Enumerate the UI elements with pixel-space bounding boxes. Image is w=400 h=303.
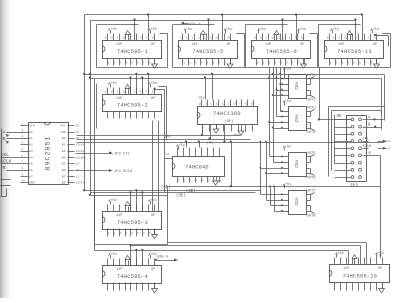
svg-text:+5v: +5v <box>178 144 185 148</box>
svg-text:15: 15 <box>110 37 114 40</box>
svg-text:(OE): (OE) <box>176 193 186 198</box>
svg-text:10: 10 <box>245 103 249 106</box>
svg-text:14: 14 <box>140 37 144 40</box>
svg-text:15: 15 <box>110 91 114 94</box>
svg-text:A4: A4 <box>29 155 33 159</box>
svg-text:3: 3 <box>22 135 24 138</box>
svg-text:(A): (A) <box>165 134 172 139</box>
svg-text:74HC595-5: 74HC595-5 <box>192 49 223 55</box>
svg-text:OUT5: OUT5 <box>307 152 317 156</box>
svg-text:14: 14 <box>289 37 293 40</box>
svg-text:OUT6: OUT6 <box>307 177 317 181</box>
svg-text:SCLK: SCLK <box>363 145 373 149</box>
svg-text:DIP: DIP <box>29 124 35 128</box>
svg-text:A3: A3 <box>29 149 33 153</box>
svg-text:12: 12 <box>204 37 208 40</box>
svg-text:6: 6 <box>22 154 24 157</box>
svg-text:16: 16 <box>251 103 255 106</box>
svg-text:14P: 14P <box>116 214 122 218</box>
svg-text:17(W): 17(W) <box>76 143 85 147</box>
svg-text:OUT3: OUT3 <box>307 107 317 111</box>
svg-text:+5v: +5v <box>110 28 117 32</box>
svg-text:14: 14 <box>76 163 80 166</box>
svg-text:OE: OE <box>337 115 343 119</box>
svg-text:14P: 14P <box>338 43 344 47</box>
svg-text:4: 4 <box>22 142 24 145</box>
svg-text:B4: B4 <box>62 155 66 159</box>
svg-text:CGA: CGA <box>295 159 300 167</box>
svg-text:9P: 9P <box>300 43 304 47</box>
svg-text:10: 10 <box>374 37 378 40</box>
svg-text:+5v: +5v <box>259 28 266 32</box>
svg-text:R: R <box>3 165 6 171</box>
svg-text:9P: 9P <box>151 43 155 47</box>
svg-text:OUT7: OUT7 <box>307 190 316 194</box>
svg-text:B8: B8 <box>62 181 66 185</box>
svg-text:+5v: +5v <box>110 199 117 203</box>
svg-text:5: 5 <box>22 148 24 151</box>
svg-text:14P: 14P <box>192 43 198 47</box>
svg-text:13: 13 <box>356 37 360 40</box>
svg-text:15: 15 <box>332 37 336 40</box>
svg-text:74HC138D: 74HC138D <box>213 111 241 117</box>
svg-text:+5v: +5v <box>337 252 344 256</box>
svg-text:74HC595-1: 74HC595-1 <box>117 49 148 55</box>
svg-text:13: 13 <box>134 37 138 40</box>
svg-text:14: 14 <box>387 140 391 143</box>
svg-text:9P: 9P <box>373 43 377 47</box>
svg-text:11: 11 <box>198 37 202 40</box>
svg-text:10: 10 <box>22 180 26 183</box>
svg-text:10: 10 <box>227 37 231 40</box>
svg-text:16: 16 <box>105 37 109 40</box>
svg-text:16: 16 <box>180 37 184 40</box>
svg-text:12: 12 <box>277 37 281 40</box>
svg-text:74HC595-9: 74HC595-9 <box>266 49 297 55</box>
svg-text:17: 17 <box>387 147 391 150</box>
svg-text:+5v: +5v <box>233 134 240 138</box>
svg-text:74HC595-16: 74HC595-16 <box>343 273 378 279</box>
svg-text:15: 15 <box>186 37 190 40</box>
svg-text:+5v: +5v <box>332 28 339 32</box>
svg-text:12: 12 <box>76 175 80 178</box>
svg-text:20: 20 <box>76 125 80 128</box>
svg-text:14: 14 <box>140 91 144 94</box>
svg-text:CGA: CGA <box>295 81 300 89</box>
svg-text:A6: A6 <box>29 168 33 172</box>
svg-text:15: 15 <box>204 103 208 106</box>
svg-text:15: 15 <box>259 37 263 40</box>
svg-text:A1: A1 <box>29 136 33 140</box>
svg-text:14P: 14P <box>116 43 122 47</box>
svg-text:OUT8: OUT8 <box>307 214 317 218</box>
svg-text:14P: 14P <box>116 268 122 272</box>
svg-text:8: 8 <box>22 167 24 170</box>
svg-text:11: 11 <box>216 103 220 106</box>
svg-text:10: 10 <box>152 37 156 40</box>
svg-text:16: 16 <box>327 37 331 40</box>
svg-text:+5v: +5v <box>186 28 193 32</box>
svg-text:16: 16 <box>105 91 109 94</box>
svg-text:(OE): (OE) <box>161 185 171 190</box>
svg-text:11: 11 <box>122 91 126 94</box>
svg-text:595-5: 595-5 <box>157 256 168 260</box>
svg-text:B1: B1 <box>62 136 66 140</box>
svg-text:A: A <box>3 129 6 135</box>
svg-text:OUT4: OUT4 <box>307 131 317 135</box>
svg-text:74HC04D: 74HC04D <box>185 165 209 171</box>
svg-text:+5v: +5v <box>226 28 233 32</box>
svg-text:+5v: +5v <box>110 253 117 257</box>
svg-text:GND: GND <box>29 181 35 185</box>
svg-text:89C2051: 89C2051 <box>44 135 51 170</box>
svg-text:74HC595-13: 74HC595-13 <box>337 49 372 55</box>
svg-text:9P: 9P <box>151 97 155 101</box>
svg-text:+5v: +5v <box>285 67 292 71</box>
svg-text:A5: A5 <box>29 162 33 166</box>
svg-text:10: 10 <box>301 37 305 40</box>
svg-text:/OE: /OE <box>60 130 66 134</box>
svg-text:A2: A2 <box>29 143 33 147</box>
svg-text:16: 16 <box>199 103 203 106</box>
svg-text:14P: 14P <box>116 97 122 101</box>
svg-text:9: 9 <box>22 173 24 176</box>
svg-text:9P: 9P <box>378 267 382 271</box>
svg-text:(OE): (OE) <box>224 119 233 124</box>
svg-text:15(OE): 15(OE) <box>76 155 87 159</box>
svg-text:74HC595-2: 74HC595-2 <box>117 103 148 109</box>
svg-text:+5v: +5v <box>110 82 117 86</box>
svg-text:14: 14 <box>233 103 237 106</box>
svg-text:A0: A0 <box>29 130 33 134</box>
svg-text:11(P): 11(P) <box>76 181 85 185</box>
svg-text:14P: 14P <box>265 43 271 47</box>
svg-text:7: 7 <box>22 161 24 164</box>
svg-text:74HC595-3: 74HC595-3 <box>117 220 148 226</box>
svg-text:JP2-SCLK: JP2-SCLK <box>114 170 133 174</box>
svg-text:(B): (B) <box>207 140 214 145</box>
svg-text:1: 1 <box>22 123 24 126</box>
svg-text:13: 13 <box>134 91 138 94</box>
svg-text:B5: B5 <box>62 162 66 166</box>
svg-text:+5v: +5v <box>198 96 205 100</box>
svg-text:+5v: +5v <box>150 199 157 203</box>
svg-text:A7: A7 <box>29 174 33 178</box>
svg-text:16: 16 <box>254 37 258 40</box>
svg-text:CGA: CGA <box>295 114 300 122</box>
svg-text:+5v: +5v <box>285 100 292 104</box>
svg-text:B3: B3 <box>62 149 66 153</box>
svg-text:B: B <box>3 136 6 142</box>
svg-text:+5v: +5v <box>299 28 306 32</box>
svg-text:B2: B2 <box>62 143 66 147</box>
svg-text:14: 14 <box>215 37 219 40</box>
svg-text:9P: 9P <box>151 214 155 218</box>
svg-text:+5v: +5v <box>372 28 379 32</box>
svg-text:14P: 14P <box>343 267 349 271</box>
svg-text:9P: 9P <box>227 43 231 47</box>
svg-text:11: 11 <box>271 37 275 40</box>
svg-text:13: 13 <box>283 37 287 40</box>
svg-text:2: 2 <box>22 129 24 132</box>
svg-text:OUT1: OUT1 <box>307 74 317 78</box>
svg-text:19: 19 <box>76 131 80 134</box>
svg-text:10: 10 <box>152 91 156 94</box>
svg-text:11: 11 <box>122 37 126 40</box>
svg-text:VCC: VCC <box>60 124 66 128</box>
svg-text:+5v: +5v <box>150 82 157 86</box>
svg-text:CGA: CGA <box>295 197 300 205</box>
svg-text:13: 13 <box>209 37 213 40</box>
svg-text:JP2: JP2 <box>350 183 359 189</box>
svg-text:16(B): 16(B) <box>76 149 85 153</box>
svg-text:B6: B6 <box>62 168 66 172</box>
svg-text:+5v: +5v <box>285 145 292 149</box>
svg-text:OUT2: OUT2 <box>307 99 317 103</box>
svg-text:74HC595-4: 74HC595-4 <box>117 274 148 280</box>
svg-text:CKL: CKL <box>363 138 370 142</box>
svg-text:12: 12 <box>222 103 226 106</box>
svg-text:13: 13 <box>227 103 231 106</box>
svg-text:14: 14 <box>166 153 170 156</box>
svg-text:14: 14 <box>362 37 366 40</box>
svg-text:9P: 9P <box>151 268 155 272</box>
svg-text:+5v: +5v <box>150 28 157 32</box>
svg-text:JP2-CYL: JP2-CYL <box>114 153 131 157</box>
svg-text:(OE): (OE) <box>186 189 196 194</box>
svg-text:11: 11 <box>344 37 348 40</box>
svg-text:+5v: +5v <box>285 183 292 187</box>
svg-text:B7: B7 <box>62 174 66 178</box>
